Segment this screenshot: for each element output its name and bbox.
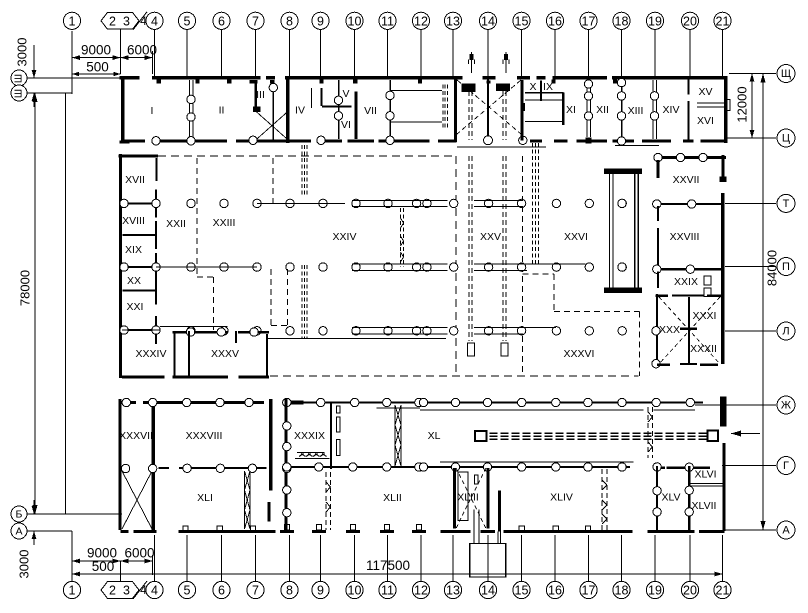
svg-text:6: 6 — [218, 14, 225, 28]
svg-text:4: 4 — [151, 14, 158, 28]
svg-text:6: 6 — [218, 584, 225, 598]
svg-text:XVII: XVII — [125, 174, 145, 186]
svg-text:XXX: XXX — [659, 324, 680, 336]
svg-text:12: 12 — [414, 584, 428, 598]
svg-text:2: 2 — [109, 584, 116, 598]
svg-text:XLI: XLI — [197, 492, 213, 504]
svg-text:XL: XL — [428, 430, 441, 442]
svg-text:XXXVI: XXXVI — [564, 348, 595, 360]
svg-text:XXXV: XXXV — [211, 348, 239, 360]
svg-text:XIII: XIII — [628, 105, 644, 117]
svg-text:V: V — [342, 88, 349, 100]
svg-text:9: 9 — [317, 14, 324, 28]
svg-text:4: 4 — [151, 584, 158, 598]
svg-text:1: 1 — [69, 14, 76, 28]
svg-text:20: 20 — [683, 14, 697, 28]
svg-text:XXI: XXI — [127, 301, 144, 313]
svg-text:А: А — [782, 525, 790, 537]
svg-text:П: П — [782, 261, 790, 273]
svg-text:I: I — [151, 105, 154, 117]
svg-text:7: 7 — [252, 584, 259, 598]
svg-text:14: 14 — [481, 584, 495, 598]
svg-text:9: 9 — [317, 584, 324, 598]
svg-text:8: 8 — [286, 14, 293, 28]
svg-text:XXXII: XXXII — [690, 343, 717, 355]
svg-text:11: 11 — [381, 584, 394, 598]
svg-text:Ж: Ж — [781, 400, 791, 412]
svg-text:15: 15 — [515, 14, 529, 28]
svg-text:XLIII: XLIII — [457, 492, 479, 504]
svg-text:13: 13 — [446, 14, 460, 28]
svg-text:12: 12 — [414, 14, 428, 28]
svg-text:X: X — [529, 81, 536, 93]
svg-text:XXIII: XXIII — [213, 217, 236, 229]
svg-text:XVIII: XVIII — [122, 215, 145, 227]
svg-text:XIX: XIX — [125, 244, 142, 256]
svg-text:Ш: Ш — [14, 89, 25, 98]
svg-text:XXXVIII: XXXVIII — [186, 430, 223, 442]
svg-text:14: 14 — [481, 14, 495, 28]
svg-text:7: 7 — [252, 14, 259, 28]
svg-text:XXVI: XXVI — [564, 231, 588, 243]
svg-text:15: 15 — [515, 584, 529, 598]
svg-text:Щ: Щ — [781, 68, 791, 80]
svg-text:XLVII: XLVII — [692, 500, 717, 512]
svg-text:11: 11 — [381, 14, 394, 28]
svg-text:18: 18 — [615, 14, 629, 28]
svg-text:Ш: Ш — [14, 74, 25, 83]
svg-text:XLVI: XLVI — [695, 469, 717, 481]
svg-text:Г: Г — [783, 460, 789, 472]
svg-text:5: 5 — [184, 14, 191, 28]
svg-text:3: 3 — [123, 14, 130, 28]
svg-text:78000: 78000 — [18, 270, 33, 306]
svg-text:XIV: XIV — [663, 104, 680, 116]
svg-text:XXIX: XXIX — [674, 276, 698, 288]
svg-text:Ц: Ц — [782, 133, 790, 145]
svg-text:Л: Л — [782, 326, 789, 338]
svg-text:3: 3 — [123, 584, 130, 598]
svg-text:84000: 84000 — [765, 250, 780, 286]
svg-text:3000: 3000 — [15, 38, 30, 67]
svg-text:6000: 6000 — [124, 546, 154, 561]
svg-text:500: 500 — [86, 60, 109, 75]
svg-text:VI: VI — [341, 119, 351, 131]
svg-text:IV: IV — [295, 105, 305, 117]
svg-text:17: 17 — [582, 14, 596, 28]
svg-text:XI: XI — [566, 104, 576, 116]
svg-text:II: II — [219, 105, 225, 117]
svg-text:18: 18 — [615, 584, 629, 598]
svg-text:12000: 12000 — [735, 86, 750, 122]
svg-text:XLIV: XLIV — [550, 492, 573, 504]
svg-text:13: 13 — [446, 584, 460, 598]
svg-text:3000: 3000 — [17, 550, 32, 579]
svg-text:XLV: XLV — [661, 492, 680, 504]
svg-text:XLII: XLII — [383, 492, 402, 504]
svg-text:10: 10 — [348, 584, 362, 598]
svg-text:19: 19 — [648, 14, 662, 28]
svg-text:19: 19 — [648, 584, 662, 598]
svg-text:8: 8 — [286, 584, 293, 598]
svg-text:XII: XII — [596, 104, 609, 116]
svg-text:5: 5 — [184, 584, 191, 598]
svg-text:500: 500 — [92, 559, 115, 574]
svg-text:XXXIX: XXXIX — [294, 430, 325, 442]
svg-text:XXII: XXII — [166, 218, 186, 230]
svg-text:XXIV: XXIV — [333, 231, 357, 243]
svg-text:Т: Т — [783, 198, 790, 210]
svg-text:10: 10 — [348, 14, 362, 28]
svg-text:4: 4 — [140, 14, 147, 28]
svg-text:XXXIV: XXXIV — [136, 348, 167, 360]
svg-text:XXVII: XXVII — [673, 174, 700, 186]
svg-text:117500: 117500 — [366, 558, 410, 573]
svg-text:16: 16 — [548, 584, 562, 598]
svg-text:XXXVII: XXXVII — [119, 430, 153, 442]
svg-text:21: 21 — [716, 14, 730, 28]
svg-text:2: 2 — [109, 14, 116, 28]
svg-text:А: А — [15, 526, 22, 538]
svg-text:XVI: XVI — [697, 115, 714, 127]
svg-text:1: 1 — [69, 584, 76, 598]
svg-text:9000: 9000 — [81, 43, 111, 58]
svg-text:17: 17 — [582, 584, 596, 598]
svg-text:4: 4 — [140, 583, 147, 597]
svg-text:IX: IX — [543, 81, 553, 93]
svg-text:III: III — [256, 89, 265, 101]
svg-text:XXVIII: XXVIII — [670, 231, 700, 243]
svg-text:XXXI: XXXI — [693, 310, 717, 322]
svg-text:XXV: XXV — [480, 231, 501, 243]
svg-text:16: 16 — [548, 14, 562, 28]
svg-text:XX: XX — [127, 275, 141, 287]
svg-text:VII: VII — [364, 105, 377, 117]
svg-text:Б: Б — [16, 509, 23, 521]
svg-text:XV: XV — [698, 86, 712, 98]
svg-text:20: 20 — [683, 584, 697, 598]
svg-text:21: 21 — [716, 584, 730, 598]
